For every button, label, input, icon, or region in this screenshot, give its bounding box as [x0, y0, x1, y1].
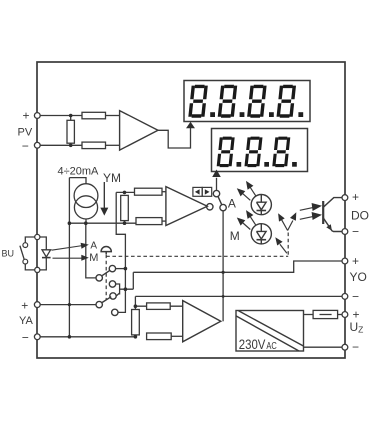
LED M light arrow shafts: [250, 216, 256, 226]
pushbutton dome: [101, 247, 111, 255]
wire CS1 top lead up and left: [69, 178, 86, 184]
BU switch contact top circle: [23, 243, 28, 248]
YM arrowhead: [100, 208, 108, 216]
arrowhead to A: [81, 243, 89, 249]
resistor R6: [136, 218, 162, 225]
wire junction to R4 top: [116, 191, 134, 193]
wire BU right branch bottom: [40, 258, 47, 270]
arrow line BU to M: [53, 257, 84, 259]
outer enclosure border: [37, 62, 345, 358]
3-digit display box DIS2: [212, 129, 308, 172]
wire c1 to switch bus: [116, 268, 126, 270]
svg-text:−: −: [352, 290, 359, 304]
wire from contact A down to op-amp U3 output: [222, 211, 224, 321]
wire long vertical from CS1 loop down to YA- line: [68, 178, 70, 337]
fuse F1: [313, 310, 338, 318]
LED A diode symbol: [257, 195, 267, 215]
terminal BU bottom: [35, 267, 40, 272]
switch SW1 upper contact circle: [213, 190, 219, 196]
LED M circle: [251, 224, 271, 244]
svg-text:A: A: [228, 196, 236, 210]
terminal PV-: [34, 142, 40, 148]
resistor R3 vertical: [67, 120, 74, 143]
svg-text:YM: YM: [103, 171, 121, 185]
diode D1 cathode bar: [42, 257, 51, 259]
diagonal arrowhead: [275, 237, 282, 245]
wire R8 leads: [134, 306, 136, 337]
wire R3 bottom lead: [70, 143, 72, 145]
switch SW3 contact c4 circle: [110, 293, 116, 299]
node dot bracket bus: [124, 287, 128, 291]
wire R3 top lead: [70, 116, 72, 121]
op-amp U2: [166, 187, 207, 226]
4-digit display digits 8.8.8.8.: [188, 85, 303, 118]
optocoupler input arrow shafts: [300, 207, 314, 219]
node dot YA+ crossing: [68, 303, 71, 306]
terminal Uz-: [342, 344, 348, 350]
svg-text:YA: YA: [19, 315, 34, 327]
arrowhead to M: [81, 255, 89, 261]
node dot rail CS1 bottom: [84, 221, 88, 225]
wire fuse to Uz+: [338, 314, 343, 316]
resistor R5: [135, 188, 163, 195]
BU switch contact bottom circle: [23, 259, 28, 264]
resistor R8 vertical: [132, 310, 140, 335]
4-digit display box DIS1: [184, 81, 310, 122]
wire YA+ line to c5: [40, 304, 96, 306]
svg-text:+: +: [352, 190, 359, 204]
arrowhead into 4-digit display: [186, 122, 195, 129]
svg-text:PV: PV: [18, 127, 33, 139]
wire PS1 to fuse: [304, 314, 314, 316]
svg-text:−: −: [352, 225, 359, 239]
wire YA- line: [40, 336, 136, 338]
switch SW1 contact A circle: [220, 204, 226, 210]
LED M arrowheads: [246, 210, 253, 219]
svg-text:BU: BU: [2, 249, 15, 259]
svg-text:+: +: [352, 254, 359, 268]
svg-text:YO: YO: [350, 270, 367, 284]
svg-text:UZ: UZ: [350, 320, 364, 335]
node dot YO+ tap: [222, 271, 225, 274]
dashed link vertical at optocoupler: [287, 233, 289, 257]
wire bottom rail of CS1 to U2 network: [69, 222, 136, 224]
resistor R9: [147, 333, 172, 340]
svg-text:DO: DO: [351, 208, 369, 222]
terminal PV+: [34, 113, 40, 119]
op-amp U1: [120, 111, 158, 151]
3-digit display digits 8.8.8.: [217, 137, 297, 167]
switch SW1 output contact circle: [207, 204, 213, 210]
terminal YO+: [342, 258, 348, 264]
LED M diode symbol: [257, 224, 267, 244]
switch SW1 lever: [218, 196, 222, 204]
current source CS1 circle 2: [74, 196, 97, 219]
switch SW2 contact c2 circle: [96, 275, 102, 281]
svg-text:+: +: [21, 299, 28, 313]
node dot c1 bus: [124, 267, 128, 271]
triangle in right button box: [205, 189, 210, 194]
arrow line BU to A: [52, 246, 84, 251]
wire input resistor to op-amp U1: [106, 115, 120, 117]
wire R5 to op-amp U2: [162, 191, 166, 193]
node dot YA- junction: [68, 335, 72, 339]
svg-text:+: +: [23, 108, 30, 122]
switch SW2 lever c2-c1: [102, 270, 110, 275]
svg-text:−: −: [352, 340, 359, 354]
wire BU right branch top: [40, 237, 47, 250]
wire PV- to input resistor: [40, 144, 82, 146]
node dot rail CS1 left: [68, 221, 72, 225]
switch contact c6 circle: [112, 309, 118, 315]
switch SW3 contact c3 circle: [109, 281, 115, 287]
YM arrow shaft: [103, 182, 105, 209]
resistor R2: [82, 142, 106, 149]
triangle in left button box: [195, 189, 200, 194]
wire U1 output to display arrow: [158, 128, 191, 149]
phototransistor emitter arrowhead: [326, 224, 332, 231]
node dot rail R4 bottom: [123, 221, 127, 225]
op-amp U3: [183, 301, 221, 342]
wire bracket c3 c4 to bus: [116, 284, 134, 296]
button box left arrow: [193, 187, 202, 196]
svg-text:230V: 230V: [239, 337, 266, 352]
wire U2 network left branch with staircase to switch bus: [116, 192, 125, 312]
diagonal light arrow: [280, 244, 287, 253]
svg-text:M: M: [89, 252, 98, 264]
LED A light arrow shafts: [250, 187, 256, 197]
V light arrows to optocoupler: [282, 220, 293, 231]
wire YO- line: [135, 295, 342, 297]
dashed link horizontal: [106, 255, 288, 257]
wire YO- line corner down to U3 network: [134, 296, 136, 306]
node dot R8 top: [134, 304, 138, 308]
svg-text:−: −: [22, 139, 29, 153]
LED A arrowheads: [246, 181, 253, 190]
wire PV+ to input resistor: [40, 115, 82, 117]
svg-text:M: M: [230, 229, 240, 243]
wire PS1 to Uz-: [304, 346, 343, 348]
BU switch lever: [20, 246, 24, 260]
wire YO+ branch rising from bus: [132, 272, 134, 289]
phototransistor emitter to DO-: [323, 218, 342, 232]
wire R7 leads: [135, 305, 182, 307]
terminal DO-: [342, 229, 348, 235]
wire R6 to op-amp U2: [162, 220, 166, 222]
resistor R4 vertical: [121, 195, 129, 220]
node dot R3 bottom: [69, 144, 73, 148]
terminal BU top: [35, 234, 40, 239]
wire R9 lead to op-amp U3: [171, 335, 183, 337]
resistor R7: [147, 303, 171, 310]
node dot R3 top: [69, 114, 73, 118]
resistor R1: [82, 112, 106, 119]
terminal YA+: [34, 302, 40, 308]
optocoupler input arrowheads: [312, 203, 322, 211]
wire resistor to op-amp U1: [106, 144, 120, 146]
node dot bus YO- crossing: [222, 295, 225, 298]
wire BU left branch top: [25, 237, 35, 243]
LED A circle: [251, 195, 271, 215]
terminal Uz+: [342, 312, 348, 318]
button box right arrow: [202, 187, 212, 196]
wire YO+ line: [133, 261, 342, 272]
svg-text:4÷20mA: 4÷20mA: [58, 166, 100, 178]
terminal DO+: [342, 195, 348, 201]
switch SW4 contact c5 circle on YA+ line: [96, 301, 102, 307]
phototransistor collector to DO+: [323, 198, 342, 208]
arrowhead into 3-digit display: [212, 170, 221, 178]
node dot R8 bottom on YA- line: [134, 335, 138, 339]
wire from rail down to A/M switch contact: [86, 223, 96, 278]
wire R4 bottom lead: [124, 221, 126, 224]
phototransistor Q1 base bar: [322, 201, 324, 224]
wire CS1 bottom lead: [85, 219, 87, 223]
current source CS1 circle 1: [74, 184, 98, 208]
power supply diagonal band: [236, 311, 303, 351]
V arrowheads: [278, 213, 285, 221]
dashed mechanical link vertical at switches: [105, 255, 107, 300]
svg-text:A: A: [90, 241, 97, 252]
wire BU left branch bottom: [25, 264, 35, 270]
power supply box PS1: [236, 311, 304, 352]
svg-text:AC: AC: [266, 340, 277, 352]
switch SW2 contact c1 circle: [109, 265, 115, 271]
switch SW4 lever c5-c4: [102, 297, 111, 303]
wire SW1 up to 3-digit display arrow: [216, 178, 218, 191]
terminal YO-: [342, 294, 348, 300]
terminal YA-: [34, 334, 40, 340]
diode D1 triangle: [42, 250, 51, 257]
node dot R4 top junction: [123, 191, 127, 195]
svg-text:−: −: [22, 330, 29, 344]
